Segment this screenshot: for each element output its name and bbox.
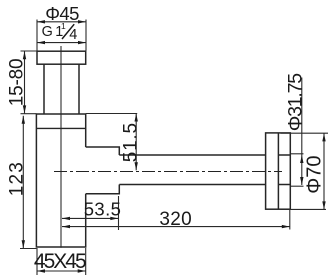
top flange plate <box>37 51 86 64</box>
dimension 123 extension line bottom <box>20 248 36 250</box>
svg-text:320: 320 <box>159 209 192 230</box>
dimension 53.5 extension line <box>118 196 120 230</box>
dimension Φ70 extension lines <box>281 132 329 134</box>
svg-text:4: 4 <box>69 27 77 43</box>
dimension Φ45 <box>37 3 86 24</box>
svg-text:123: 123 <box>7 161 28 196</box>
dimension G 1 1/4 <box>37 21 86 44</box>
inlet tube left wall <box>43 64 45 114</box>
inlet tube right wall <box>78 64 80 114</box>
body seam line <box>36 127 85 129</box>
svg-text:51.5: 51.5 <box>120 122 141 162</box>
dimension 53.5 <box>62 199 121 221</box>
outlet pipe top edge <box>119 154 265 156</box>
centerline horizontal axis of outlet pipe <box>54 171 282 173</box>
svg-text:45X45: 45X45 <box>34 250 86 273</box>
svg-text:Φ31.75: Φ31.75 <box>284 73 306 132</box>
dimension 45X45 <box>34 250 86 273</box>
wall flange disk <box>266 133 291 209</box>
dimension 320 <box>62 209 290 230</box>
wall flange divider <box>277 133 279 209</box>
dimension 320 extension line <box>289 210 291 230</box>
centerline vertical axis of trap body <box>60 46 62 248</box>
dimension 15-80 <box>6 51 27 113</box>
dimension Φ31.75 extension lines <box>291 153 304 155</box>
svg-text:1: 1 <box>61 21 66 31</box>
compression nut <box>86 147 120 194</box>
trap body 45x45 <box>36 114 85 247</box>
dimension Φ45 extension lines <box>36 20 38 51</box>
dimension 51.5 <box>120 114 141 171</box>
svg-text:15-80: 15-80 <box>6 59 27 107</box>
dimension 15-80 extension lines <box>21 50 38 52</box>
svg-text:G: G <box>42 24 53 40</box>
svg-text:Φ70: Φ70 <box>304 155 326 193</box>
dimension 51.5 extension line <box>86 113 138 115</box>
dimension 123 <box>7 116 28 249</box>
dimension Φ31.75 <box>284 73 306 185</box>
svg-text:53.5: 53.5 <box>84 199 122 220</box>
outlet pipe bottom edge <box>119 184 265 186</box>
dimension 45X45 extension lines <box>36 248 38 275</box>
dimension Φ70 <box>304 133 326 209</box>
